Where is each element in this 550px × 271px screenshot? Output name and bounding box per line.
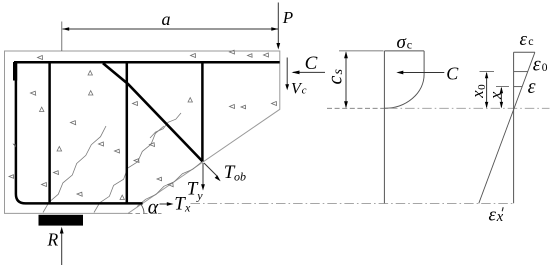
dimension a extension line (61, 22, 63, 52)
stirrup 3 (ends at node) (201, 62, 204, 161)
upper dash-dot axis line (388, 107, 550, 109)
lower dash-dot axis line (191, 202, 514, 204)
cs bottom dashed extension (327, 107, 384, 109)
svg-text:c: c (407, 37, 412, 51)
stress block curve (384, 74, 424, 108)
left end bar with rounded corner into bottom bar (16, 62, 143, 203)
dashed extension of beam bottom edge (128, 212, 162, 214)
beam outline (5, 51, 280, 213)
crack 3 (lower right wavy toward node) (137, 162, 202, 207)
strain diagram vertical line (513, 52, 515, 203)
svg-text:x: x (486, 91, 505, 100)
svg-text:C: C (305, 53, 318, 74)
svg-text:x: x (496, 209, 504, 225)
dimension a line (63, 28, 279, 30)
eps0 level line (514, 71, 528, 73)
x dimension (500, 88, 502, 107)
x0 dimension (486, 73, 488, 107)
support plate (39, 215, 84, 226)
stress block top edge (384, 50, 424, 52)
eps level line (514, 86, 523, 88)
svg-text:ob: ob (234, 170, 246, 184)
svg-text:s: s (331, 69, 346, 75)
P arrow (277, 3, 279, 44)
x label (rotated) (486, 91, 505, 100)
top reinforcement bar (14, 61, 280, 64)
svg-text:C: C (446, 63, 459, 83)
svg-text:c: c (325, 76, 347, 85)
svg-text:c: c (528, 34, 533, 48)
svg-text:0: 0 (542, 62, 548, 74)
svg-text:R: R (47, 230, 59, 250)
svg-text:σ: σ (397, 32, 407, 53)
svg-text:ε: ε (528, 76, 536, 98)
Tx arrow (160, 203, 168, 205)
stress diagram section line (383, 51, 385, 204)
svg-text:c: c (302, 84, 307, 96)
Ty arrow (202, 163, 204, 185)
crack 1 (left wavy) (43, 126, 106, 213)
Tob arrow (204, 163, 217, 176)
svg-text:0: 0 (476, 84, 488, 90)
Vc arrow (286, 58, 288, 85)
stress block right edge (423, 51, 425, 75)
svg-text:x: x (184, 200, 191, 214)
stirrup 2 (126, 62, 129, 203)
crack 4 (short, crossing diagonal bar) (150, 113, 181, 138)
svg-text:ε: ε (489, 205, 497, 226)
small tick on left bar (13, 144, 16, 148)
top bar end hook stub (thick, left) (13, 62, 17, 81)
svg-text:y: y (196, 188, 203, 202)
C arrow (stress) (398, 72, 444, 74)
x0 label (rotated) (468, 84, 488, 99)
aggregate triangles (9, 50, 277, 199)
angle alpha arc (141, 205, 144, 214)
strain slant line (479, 52, 535, 203)
stirrup 1 (48, 62, 51, 203)
svg-text:x: x (468, 90, 487, 99)
inclined (bent-up) bar (103, 63, 203, 161)
cs top extension line (339, 50, 384, 52)
R arrow (61, 233, 63, 265)
svg-text:ε: ε (533, 53, 541, 75)
svg-text:ε: ε (520, 29, 528, 50)
cs label (rotated) (325, 69, 347, 85)
svg-text:a: a (162, 9, 171, 29)
strain diagram top edge (514, 51, 535, 53)
C arrow (beam) (293, 71, 325, 73)
svg-text:P: P (282, 8, 293, 27)
svg-text:α: α (148, 197, 159, 219)
cs dimension (345, 53, 347, 108)
crack 2 (middle wavy) (94, 126, 164, 213)
